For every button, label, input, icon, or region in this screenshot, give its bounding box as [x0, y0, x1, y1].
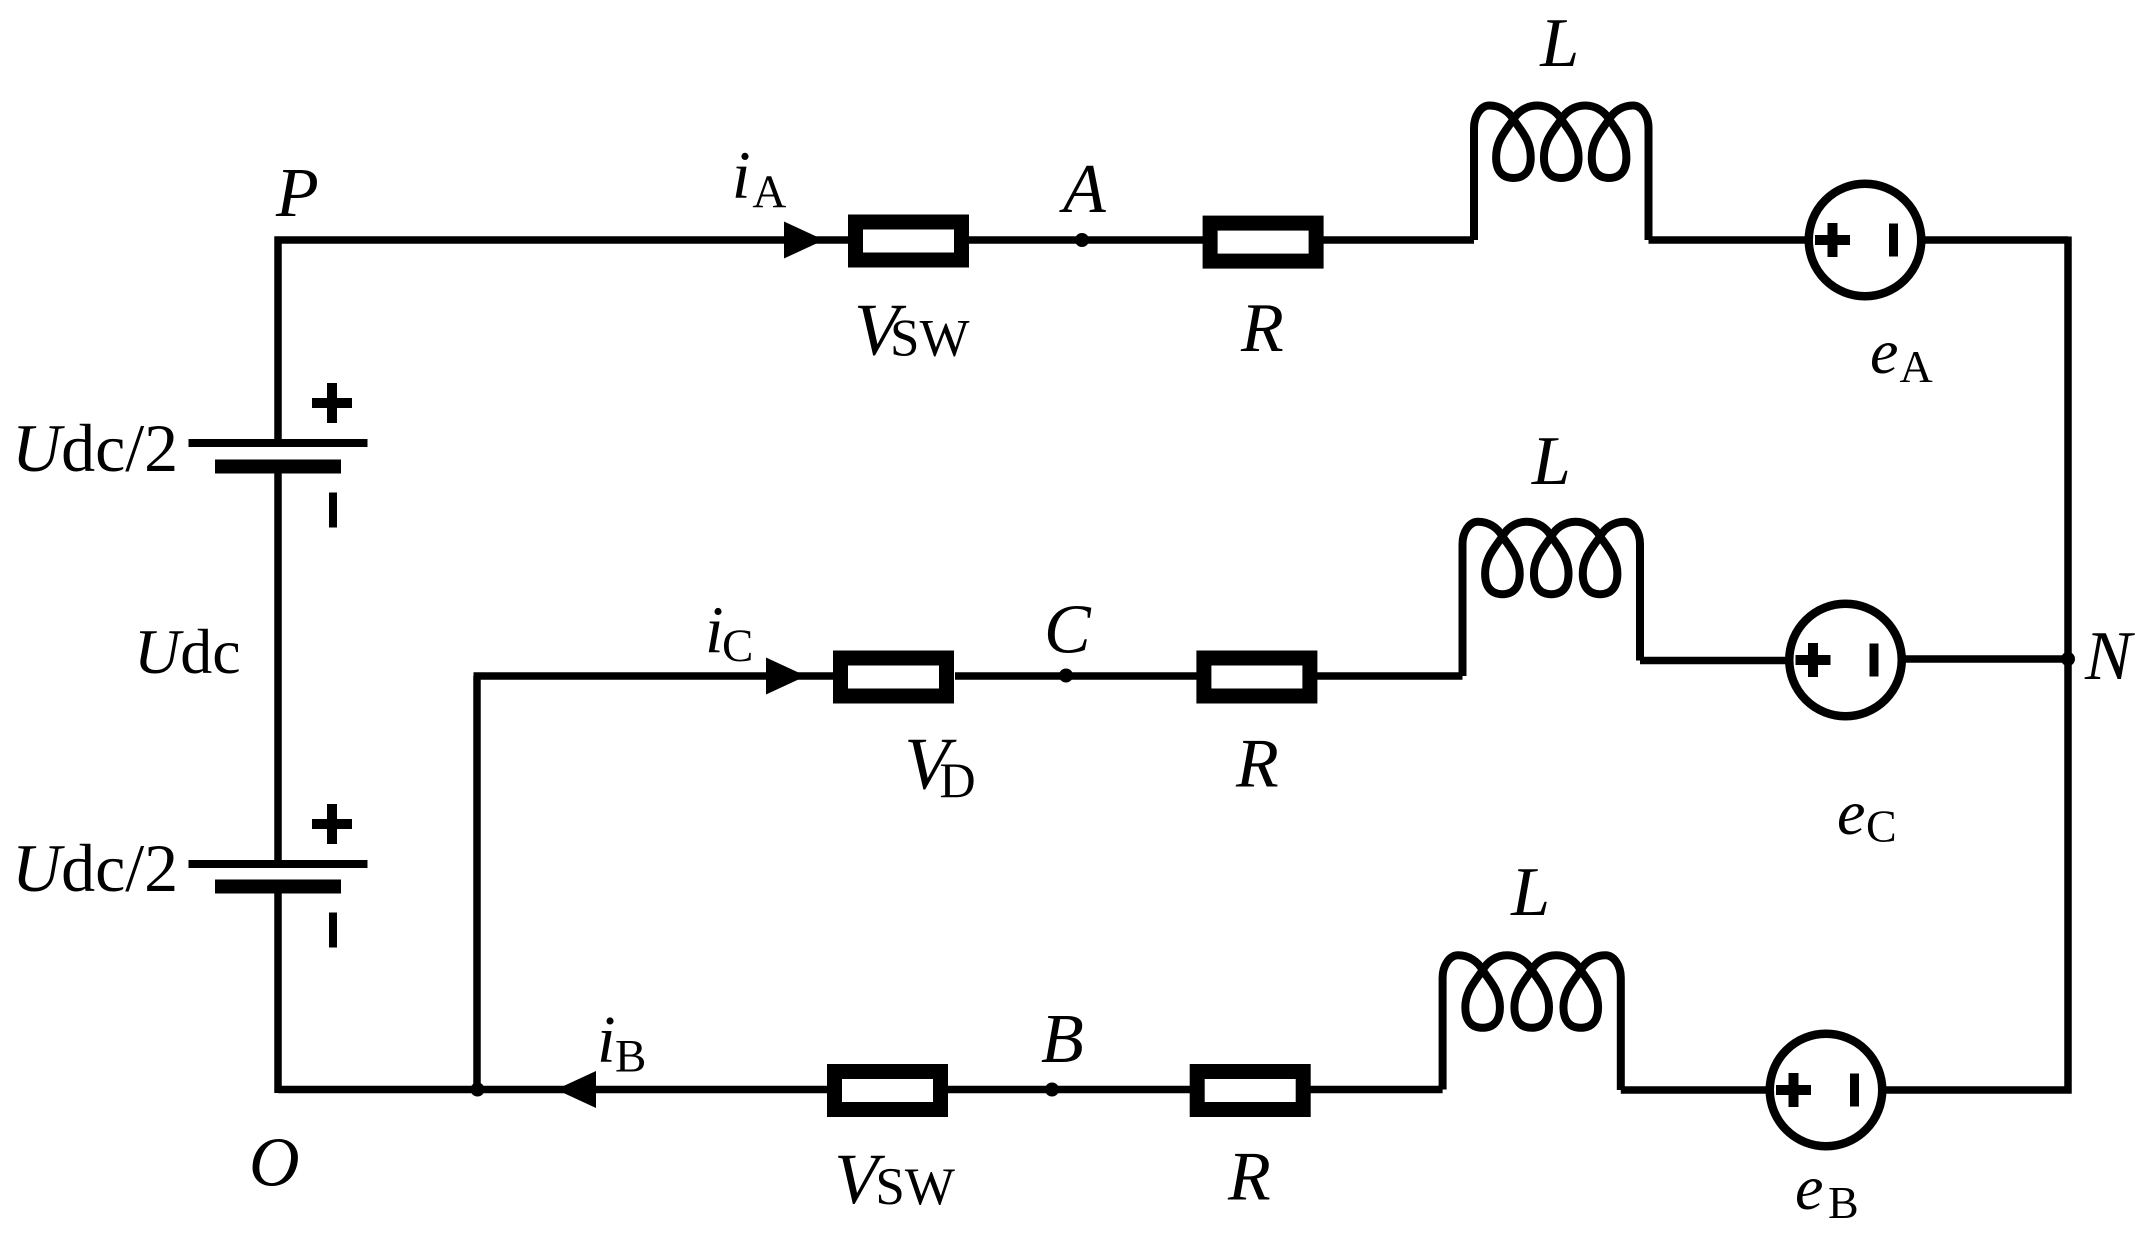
svg-text:B: B: [1041, 1001, 1084, 1078]
svg-text:SW: SW: [890, 310, 970, 368]
svg-text:B: B: [615, 1031, 646, 1083]
svg-text:P: P: [275, 155, 319, 232]
svg-text:i: i: [597, 1003, 616, 1077]
svg-text:N: N: [2084, 618, 2135, 695]
svg-text:R: R: [1227, 1139, 1271, 1216]
svg-text:Udc: Udc: [134, 616, 241, 687]
svg-text:R: R: [1235, 726, 1279, 803]
svg-text:i: i: [732, 137, 751, 213]
svg-text:C: C: [722, 620, 753, 672]
svg-text:O: O: [249, 1125, 300, 1202]
svg-text:e: e: [1837, 777, 1865, 848]
svg-text:Udc/2: Udc/2: [12, 830, 178, 906]
svg-text:R: R: [1240, 290, 1284, 367]
svg-text:e: e: [1870, 316, 1898, 387]
svg-text:L: L: [1539, 5, 1579, 82]
svg-text:Udc/2: Udc/2: [12, 410, 178, 486]
svg-text:L: L: [1531, 423, 1571, 500]
svg-text:A: A: [752, 166, 786, 218]
svg-text:A: A: [1059, 151, 1106, 228]
svg-text:D: D: [940, 752, 976, 808]
svg-text:i: i: [705, 593, 724, 667]
svg-text:C: C: [1044, 592, 1092, 669]
svg-text:C: C: [1866, 801, 1897, 852]
svg-text:B: B: [1828, 1177, 1859, 1228]
svg-text:L: L: [1510, 854, 1550, 931]
svg-text:A: A: [1900, 341, 1933, 392]
svg-text:SW: SW: [875, 1158, 955, 1216]
svg-text:e: e: [1795, 1152, 1823, 1223]
